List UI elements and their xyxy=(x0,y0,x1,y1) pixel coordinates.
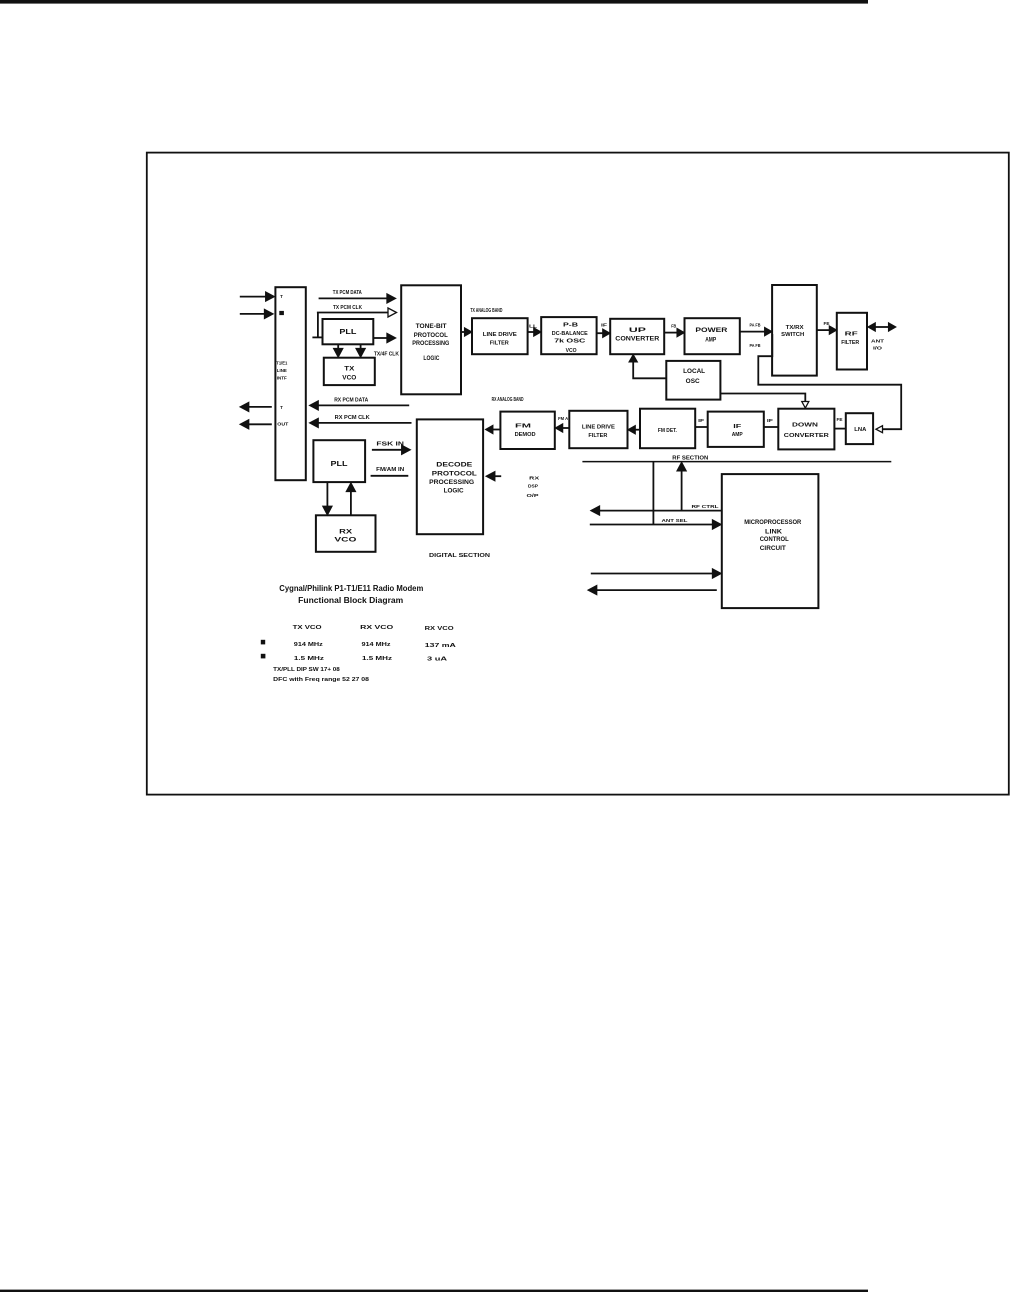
svg-text:FB: FB xyxy=(671,324,676,329)
svg-text:VCO: VCO xyxy=(566,348,577,354)
svg-text:RF: RF xyxy=(845,331,859,337)
svg-text:DEMOD: DEMOD xyxy=(515,432,536,438)
svg-text:Cygnal/Philink P1-T1/E11 Radio: Cygnal/Philink P1-T1/E11 Radio Modem xyxy=(279,584,423,593)
svg-text:1.5 MHz: 1.5 MHz xyxy=(362,656,392,662)
svg-text:914 MHz: 914 MHz xyxy=(294,642,323,648)
svg-text:FILTER: FILTER xyxy=(588,433,607,439)
svg-text:P-B: P-B xyxy=(563,323,578,329)
svg-text:7k OSC: 7k OSC xyxy=(554,339,585,345)
svg-text:PLL: PLL xyxy=(331,459,348,468)
svg-text:CONVERTER: CONVERTER xyxy=(784,433,829,439)
svg-text:FILTER: FILTER xyxy=(841,340,859,346)
svg-text:PROCESSING: PROCESSING xyxy=(429,479,474,486)
svg-text:TX VCO: TX VCO xyxy=(293,625,322,631)
svg-text:OSC: OSC xyxy=(686,379,701,385)
svg-text:RF SECTION: RF SECTION xyxy=(672,456,708,462)
svg-text:T1/E1: T1/E1 xyxy=(276,361,287,367)
svg-text:LOGIC: LOGIC xyxy=(423,355,439,362)
svg-text:914 MHz: 914 MHz xyxy=(362,642,391,648)
svg-text:OUT: OUT xyxy=(277,422,288,427)
svg-text:RX ANALOG BAND: RX ANALOG BAND xyxy=(492,397,524,403)
svg-text:FM A: FM A xyxy=(558,416,569,421)
svg-text:RX VCO: RX VCO xyxy=(360,625,393,631)
svg-text:LOGIC: LOGIC xyxy=(444,488,464,495)
svg-text:SWITCH: SWITCH xyxy=(781,332,804,338)
svg-text:TX ANALOG BAND: TX ANALOG BAND xyxy=(470,308,502,314)
svg-text:IF: IF xyxy=(698,418,704,423)
svg-text:CONVERTER: CONVERTER xyxy=(615,337,660,343)
svg-text:137 mA: 137 mA xyxy=(425,643,456,649)
svg-text:IF: IF xyxy=(601,323,607,328)
svg-text:VCO: VCO xyxy=(342,376,356,382)
svg-text:TX PCM DATA: TX PCM DATA xyxy=(333,290,362,296)
svg-text:ANT SEL: ANT SEL xyxy=(662,518,688,523)
svg-text:3 uA: 3 uA xyxy=(427,656,447,662)
svg-text:CONTROL: CONTROL xyxy=(760,536,789,543)
svg-text:LINE: LINE xyxy=(277,368,288,374)
svg-text:I/O: I/O xyxy=(873,345,883,350)
svg-text:TX/4F CLK: TX/4F CLK xyxy=(374,352,399,358)
svg-text:O/P: O/P xyxy=(527,493,540,499)
svg-text:DFC with Freq range 52 27 08: DFC with Freq range 52 27 08 xyxy=(273,677,369,683)
svg-text:RX: RX xyxy=(339,529,352,535)
svg-text:Functional Block Diagram: Functional Block Diagram xyxy=(298,596,403,605)
svg-text:FILTER: FILTER xyxy=(490,341,510,347)
svg-text:TX: TX xyxy=(344,367,354,373)
svg-text:DIGITAL SECTION: DIGITAL SECTION xyxy=(429,553,490,559)
svg-text:DECODE: DECODE xyxy=(436,461,472,468)
svg-text:LINK: LINK xyxy=(765,529,783,536)
svg-text:CIRCUIT: CIRCUIT xyxy=(760,545,786,552)
svg-text:TX/RX: TX/RX xyxy=(786,325,804,331)
svg-text:POWER: POWER xyxy=(695,328,728,334)
svg-text:RX PCM DATA: RX PCM DATA xyxy=(334,398,368,404)
svg-text:PROCESSING: PROCESSING xyxy=(412,340,449,347)
svg-text:LINE DRIVE: LINE DRIVE xyxy=(582,424,615,430)
svg-text:ANT: ANT xyxy=(871,338,884,343)
svg-text:DSP: DSP xyxy=(528,484,539,490)
svg-text:IF: IF xyxy=(733,424,742,430)
svg-text:AMP: AMP xyxy=(705,338,716,344)
svg-text:UP: UP xyxy=(629,328,646,334)
svg-text:FM/AM IN: FM/AM IN xyxy=(376,467,404,473)
svg-text:RX PCM CLK: RX PCM CLK xyxy=(335,415,370,421)
svg-text:TX/PLL DIP SW 17+ 08: TX/PLL DIP SW 17+ 08 xyxy=(273,667,340,673)
svg-text:PA FB: PA FB xyxy=(750,322,761,327)
svg-text:AMP: AMP xyxy=(732,432,743,438)
svg-text:RX: RX xyxy=(529,475,540,481)
svg-text:RF CTRL: RF CTRL xyxy=(692,504,719,509)
svg-text:TONE-BIT: TONE-BIT xyxy=(416,323,447,330)
svg-text:FM: FM xyxy=(515,424,532,430)
svg-text:PLL: PLL xyxy=(339,327,356,336)
svg-text:PROTOCOL: PROTOCOL xyxy=(414,332,448,339)
svg-text:INTF: INTF xyxy=(277,375,287,381)
svg-text:RX VCO: RX VCO xyxy=(425,626,454,632)
svg-text:PROTOCOL: PROTOCOL xyxy=(432,470,477,477)
svg-text:T: T xyxy=(280,294,283,299)
svg-text:PA FB: PA FB xyxy=(750,343,761,348)
svg-text:FM DET.: FM DET. xyxy=(658,428,677,434)
svg-text:IF: IF xyxy=(767,418,773,423)
svg-text:FE: FE xyxy=(824,321,830,326)
svg-text:LINE DRIVE: LINE DRIVE xyxy=(483,332,517,338)
svg-text:FSK IN: FSK IN xyxy=(376,441,404,447)
svg-text:TX PCM CLK: TX PCM CLK xyxy=(333,305,362,311)
svg-text:T: T xyxy=(280,405,283,410)
svg-text:VCO: VCO xyxy=(334,538,357,544)
svg-text:DOWN: DOWN xyxy=(792,422,818,428)
svg-text:LNA: LNA xyxy=(854,427,867,433)
svg-text:1.5 MHz: 1.5 MHz xyxy=(294,656,324,662)
svg-text:LOCAL: LOCAL xyxy=(683,369,705,375)
svg-text:FE: FE xyxy=(837,417,843,422)
svg-text:DC-BALANCE: DC-BALANCE xyxy=(552,331,589,337)
svg-text:LL: LL xyxy=(529,323,537,328)
svg-text:MICROPROCESSOR: MICROPROCESSOR xyxy=(744,519,801,526)
